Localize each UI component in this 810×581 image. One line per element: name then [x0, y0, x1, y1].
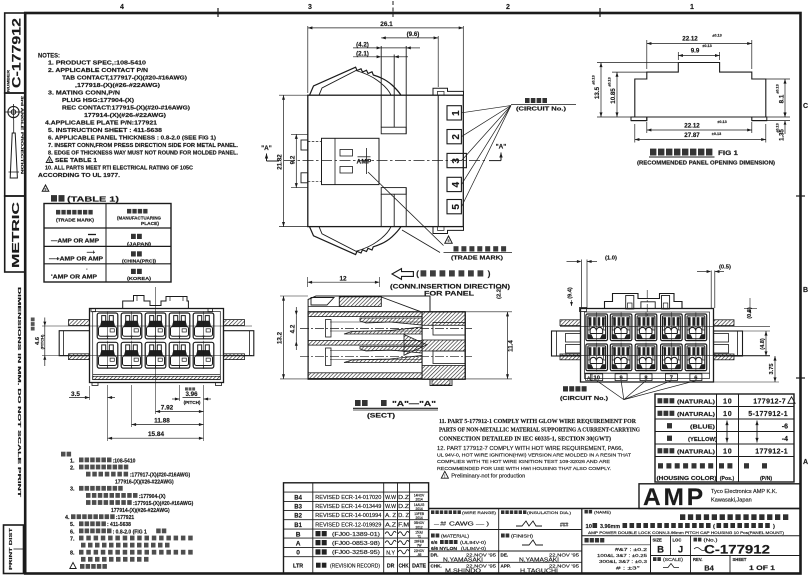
svg-text:10: 10 [586, 524, 592, 530]
panel fig dimension 22.12 bottom [646, 122, 648, 133]
svg-text:B: B [803, 287, 808, 294]
projection symbol target circle [8, 106, 19, 117]
svg-text:Tyco Electronics AMP K.K.: Tyco Electronics AMP K.K. [711, 489, 778, 495]
svg-text:2014: 2014 [416, 516, 423, 520]
svg-text:J: J [678, 545, 683, 556]
top view circuit number box 4 [447, 177, 461, 191]
parts table row 177912-1 [658, 448, 675, 453]
svg-text:6.: 6. [70, 529, 75, 535]
svg-text:REVISED ECR-14-013449: REVISED ECR-14-013449 [315, 504, 381, 510]
svg-text:(0.5): (0.5) [719, 265, 731, 271]
svg-text:(FJ00-3258-95): (FJ00-3258-95) [332, 550, 380, 556]
panel fig dimension 13.5 left [597, 62, 678, 64]
svg-text:B1: B1 [294, 523, 302, 529]
svg-text:B2: B2 [294, 514, 302, 520]
conn insertion direction arrow [392, 269, 413, 280]
svg-text:— ##: — ## [434, 522, 446, 528]
rear view center line vertical [646, 290, 648, 316]
dimension 13.2 section [280, 295, 308, 297]
svg-text:(Pos.): (Pos.) [720, 476, 735, 482]
svg-text:B4: B4 [294, 495, 302, 501]
svg-text:15.84: 15.84 [148, 431, 164, 438]
amp logo box [639, 484, 801, 509]
svg-text:DR: DR [387, 564, 395, 570]
front view left lock pins [69, 320, 90, 326]
svg-text:PRINT DIST: PRINT DIST [8, 527, 13, 570]
svg-text:3.96mm: 3.96mm [600, 524, 620, 530]
front view cavities row 1 [97, 313, 118, 339]
panel fig dimension 9.9 [677, 52, 679, 60]
insulation dia cell [501, 510, 526, 514]
rear view circuit leader lines [597, 381, 624, 400]
svg-text:13.2: 13.2 [277, 331, 284, 344]
svg-text:(JAPAN): (JAPAN) [127, 242, 151, 248]
svg-text:(2.1): (2.1) [356, 50, 369, 57]
svg-text:(CIRCUIT No.): (CIRCUIT No.) [516, 107, 566, 113]
svg-text:5: 5 [451, 204, 462, 210]
section view top wall hatched [308, 312, 422, 317]
svg-text:(1.0): (1.0) [605, 256, 617, 262]
svg-text:100&L 3&7 : ±0.25: 100&L 3&7 : ±0.25 [597, 553, 648, 558]
svg-text:PLACE): PLACE) [141, 221, 159, 226]
svg-text:177916-(X)(#26-#22AWG): 177916-(X)(#26-#22AWG) [115, 480, 174, 486]
svg-text:4.: 4. [65, 515, 70, 521]
rear view left ear [552, 331, 581, 356]
svg-text:—+: —+ [87, 250, 95, 256]
top view right bottom corner latch [433, 227, 464, 234]
svg-text:1.35: 1.35 [780, 129, 786, 141]
svg-text:12: 12 [339, 276, 347, 283]
parts table header pn [744, 463, 767, 468]
svg-text:RECOMMENDED FOR USE WITH HWI H: RECOMMENDED FOR USE WITH HWI HOUSING THA… [437, 466, 611, 472]
title block lower grid [582, 535, 801, 537]
top view center housing block [322, 138, 380, 184]
name cell japanese line 1 [680, 514, 788, 520]
svg-text:APP.: APP. [501, 564, 511, 569]
section view latch diagonal [381, 297, 421, 312]
rear view cavities row 1 [586, 314, 608, 341]
svg-text:(9.4): (9.4) [568, 287, 574, 299]
panel fig dimension 10.85 left [612, 71, 647, 73]
svg-text:7.92: 7.92 [161, 405, 174, 412]
svg-text:SEE TABLE 1: SEE TABLE 1 [55, 158, 97, 164]
svg-text:H.TAGUCHI: H.TAGUCHI [520, 569, 559, 575]
svg-text:(FJ00-1389-01): (FJ00-1389-01) [332, 532, 380, 538]
parts table grid [655, 394, 794, 482]
panel fig dimension 1.35 right [767, 120, 790, 122]
svg-text:0: 0 [296, 550, 300, 557]
dimension 3.75 rear right rotated [714, 381, 780, 383]
panel fig caption japanese [650, 149, 712, 156]
svg-text:10: 10 [723, 446, 733, 455]
svg-text:6/6 NYLON: 6/6 NYLON [431, 546, 458, 551]
rear view body outline [581, 309, 714, 383]
table 1 delta marker [42, 185, 49, 191]
svg-text:# : ±3°: # : ±3° [616, 566, 640, 571]
svg-text:Kawasaki,Japan: Kawasaki,Japan [711, 498, 752, 504]
svg-text:): ) [488, 269, 491, 279]
japanese note line 13 [81, 543, 170, 548]
svg-text:D. Z: D. Z [398, 513, 409, 519]
svg-text:±0.13: ±0.13 [592, 75, 596, 84]
revision table grid [284, 483, 429, 574]
svg-text:METRIC: METRIC [10, 201, 22, 268]
top view left tab upper [301, 140, 308, 150]
svg-text:27.87: 27.87 [684, 132, 700, 139]
panel fig dimension 22.12 top [646, 40, 648, 69]
rear view top bump [605, 294, 683, 309]
svg-text:(FJ00-0853-98): (FJ00-0853-98) [332, 541, 380, 547]
dimension 4.2 section [295, 315, 297, 341]
third angle projection box [5, 93, 26, 196]
svg-text:!: ! [444, 473, 445, 478]
svg-text:CAWG — ): CAWG — ) [449, 522, 490, 528]
front view right lock pins [224, 320, 245, 326]
svg-text:PLUG HSG:177904-(X): PLUG HSG:177904-(X) [62, 98, 134, 104]
svg-text:REC CONTACT:177915-(X)(#20-#16: REC CONTACT:177915-(X)(#20-#16AWG) [62, 106, 190, 112]
panel fig dimension 27.87 bottom [634, 124, 636, 143]
top view latch slot verticals [380, 46, 382, 127]
svg-text:DE.: DE. [501, 553, 509, 558]
section view terminal lines upper [330, 321, 422, 323]
trade mark leader line [368, 172, 444, 246]
dimension 11.4 section right [465, 311, 512, 313]
top view body outline [308, 95, 464, 226]
svg-text:177914-(X)(#26-#22AWG): 177914-(X)(#26-#22AWG) [84, 113, 166, 119]
svg-text:2012: 2012 [416, 525, 423, 529]
svg-text:(REVISION RECORD): (REVISION RECORD) [330, 564, 380, 570]
svg-text:5. INSTRUCTION SHEET : 411-563: 5. INSTRUCTION SHEET : 411-5638 [48, 128, 162, 134]
svg-text:ACCORDING TO UL 1977.: ACCORDING TO UL 1977. [38, 173, 120, 179]
svg-text:4: 4 [451, 181, 462, 187]
panel opening outline fig 1 [631, 63, 767, 121]
top view latch ledge upper [381, 127, 406, 134]
svg-text::177917-(X)(#20-#16AWG): :177917-(X)(#20-#16AWG) [130, 473, 191, 479]
japanese notes heading [61, 452, 71, 457]
svg-text:177912-7: 177912-7 [753, 398, 786, 405]
svg-text:-6: -6 [782, 423, 788, 430]
section view terminal lines lower [330, 350, 422, 352]
japanese note line 7 [86, 500, 132, 505]
svg-text:3.: 3. [70, 487, 75, 493]
svg-text:DATE: DATE [412, 564, 427, 570]
svg-text:N.YAMASAKI: N.YAMASAKI [443, 558, 484, 564]
top view mating face line [437, 95, 439, 226]
svg-text:(4.2): (4.2) [356, 42, 369, 49]
svg-text:-95: -95 [417, 553, 422, 557]
svg-text:22.12: 22.12 [684, 123, 700, 130]
section view center V wedge [404, 335, 427, 356]
rear view circuit number label [563, 386, 587, 391]
svg-text:1 OF 1: 1 OF 1 [749, 566, 776, 572]
rear view right ear [714, 331, 743, 356]
rear view circuit number 7 [665, 374, 677, 381]
svg-text:±0.13: ±0.13 [717, 120, 726, 124]
rear view circuit number 10 [591, 374, 603, 381]
svg-text:—AMP OR AMP: —AMP OR AMP [51, 239, 100, 245]
panel fig dimension 8.1 right [766, 78, 790, 80]
dimension 4.6 pitch left rotated [31, 318, 35, 331]
svg-text:"A": "A" [261, 145, 272, 152]
svg-text:(PITCH): (PITCH) [40, 334, 45, 349]
top view upper latch wing [310, 67, 402, 95]
svg-text:9: 9 [45, 188, 47, 192]
zone tick right lower [796, 377, 805, 379]
svg-text:2014: 2014 [416, 498, 423, 502]
svg-text:B3: B3 [294, 505, 302, 511]
svg-text:±0.13: ±0.13 [776, 84, 780, 93]
section view row center lines [300, 328, 472, 330]
svg-text:W.W: W.W [385, 495, 396, 501]
rear view circuit number 8 [640, 374, 652, 381]
svg-text:#&7 : ±0.2: #&7 : ±0.2 [615, 547, 648, 552]
zone center dashed divider top [392, 1, 394, 17]
table 1 header manufacturing place [127, 209, 148, 214]
dimension (4.8) rear right rotated [714, 330, 771, 332]
rear view cavities row 2 [586, 344, 608, 371]
svg-text:9.9: 9.9 [691, 48, 700, 55]
drawing number cell [694, 538, 702, 542]
top view circuit number box 2 [447, 130, 461, 144]
svg-text:(RECOMMENDED PANEL OPENING DIM: (RECOMMENDED PANEL OPENING DIMENSION) [637, 161, 775, 167]
svg-text:3rd ANGLE PROJECTION: 3rd ANGLE PROJECTION [20, 96, 24, 175]
svg-text:1: 1 [451, 110, 462, 116]
svg-text:(KOREA): (KOREA) [127, 276, 151, 282]
svg-text:11. PART 5-177912-1 COMPLY WIT: 11. PART 5-177912-1 COMPLY WITH GLOW WIR… [439, 419, 637, 425]
svg-text:M.SHINDO: M.SHINDO [445, 569, 482, 575]
trade mark label [454, 246, 507, 251]
svg-text:(HOUSING COLOR): (HOUSING COLOR) [657, 476, 717, 482]
svg-text:C-177912: C-177912 [704, 545, 770, 557]
svg-text:(UL94V-0): (UL94V-0) [461, 546, 487, 551]
svg-text:N.YAMASAKI: N.YAMASAKI [519, 558, 560, 564]
section view middle wall hatched [308, 341, 422, 346]
svg-text:C: C [803, 103, 808, 110]
svg-text:±0.13: ±0.13 [776, 123, 780, 132]
japanese note line 6 [86, 493, 138, 498]
front view row center line lower [42, 354, 252, 356]
svg-text::177921: :177921 [116, 515, 135, 521]
zone tick top left [217, 8, 219, 17]
svg-text:±0.13: ±0.13 [702, 44, 711, 48]
svg-text:DIMENSIONS IN MM. DO NOT SCALE: DIMENSIONS IN MM. DO NOT SCALE PRINT [17, 287, 22, 497]
table 1 header trade mark [56, 210, 93, 215]
parts table row yellow [667, 436, 672, 441]
front view bottom feet [92, 383, 98, 386]
svg-text:22.12: 22.12 [682, 36, 698, 43]
svg-text:26.1: 26.1 [380, 21, 393, 28]
trade mark delta marker [445, 236, 452, 243]
top view latch ledge lower [381, 188, 406, 195]
svg-text:7. INSERT CONN,FROM PRESS DIRE: 7. INSERT CONN,FROM PRESS DIRECTION SIDE… [48, 143, 238, 149]
svg-text:21.82: 21.82 [277, 154, 284, 170]
svg-text:A. Z: A. Z [385, 513, 396, 519]
svg-text:(NATURAL): (NATURAL) [677, 412, 715, 418]
top view circuit number box 3 [447, 153, 466, 167]
svg-text:A: A [296, 540, 301, 547]
japanese note line 3 [86, 472, 128, 477]
svg-text:177914-(X)(#26-#22AWG): 177914-(X)(#26-#22AWG) [111, 508, 170, 514]
section view upper terminal wedge [360, 318, 422, 325]
svg-text:±0.13: ±0.13 [712, 132, 721, 136]
section view latch hatched block [339, 297, 381, 307]
dimension 26.1 top [307, 26, 309, 93]
note 9 see table 1 with triangle [46, 157, 53, 163]
svg-text:A.Z: A.Z [385, 523, 396, 529]
svg-text:(CONN.INSERTION DIRECTION): (CONN.INSERTION DIRECTION) [390, 283, 510, 290]
rear view row center line upper [560, 325, 770, 327]
rear view number strip [585, 372, 710, 374]
svg-text:5-177912-1: 5-177912-1 [748, 411, 788, 418]
svg-text::177915-(X)(#20-#16AWG): :177915-(X)(#20-#16AWG) [133, 501, 194, 507]
preliminary note triangle [441, 471, 448, 478]
svg-text:(FINISH): (FINISH) [511, 534, 534, 539]
svg-text:±0.13: ±0.13 [608, 77, 612, 86]
svg-text:(INSULATION DIA.): (INSULATION DIA.) [527, 510, 572, 515]
dimension 21.82 left [279, 94, 308, 96]
svg-text:(MANUFACTUARING: (MANUFACTUARING [117, 216, 161, 221]
svg-text:(4.8): (4.8) [760, 338, 766, 350]
parts table row 5-177912-1 [658, 411, 675, 416]
name cell header [585, 510, 593, 514]
section view body outline [308, 312, 465, 379]
svg-text:10: 10 [723, 409, 733, 418]
rear view row center line lower [560, 354, 770, 356]
svg-text:2. APPLICABLE CONTACT P/N: 2. APPLICABLE CONTACT P/N [48, 68, 148, 74]
svg-text:REVISED ECR-12-019929: REVISED ECR-12-019929 [315, 523, 381, 529]
front view body outline [90, 309, 224, 383]
top view circuit number box 5 [447, 200, 461, 214]
circuit number leader lines top view [462, 106, 512, 113]
dimension pitch 3.96 front view [185, 387, 195, 390]
svg-text::177904-(X): :177904-(X) [139, 494, 166, 500]
svg-text:(: ( [416, 269, 419, 279]
tolerance cell [585, 538, 605, 543]
svg-text:8.1: 8.1 [779, 94, 786, 103]
svg-text:,177918-(X)(#26-#22AWG): ,177918-(X)(#26-#22AWG) [75, 83, 160, 89]
svg-text:13.5: 13.5 [594, 86, 601, 99]
svg-text:10. ALL PARTS MEET RTI ELECTRI: 10. ALL PARTS MEET RTI ELECTRICAL RATING… [45, 166, 194, 172]
table 1 title [51, 195, 65, 202]
print dist box [4, 525, 24, 574]
section view bottom wall hatched [308, 373, 422, 379]
front view left ear [59, 331, 89, 356]
svg-text:(YELLOW): (YELLOW) [688, 437, 717, 443]
svg-text:"A"—"A": "A"—"A" [392, 401, 436, 408]
circuit number label top view [511, 104, 576, 106]
zone tick right upper [796, 195, 805, 197]
front view vertical center line [155, 287, 157, 390]
rear view right pin stubs [714, 334, 729, 343]
zone tick top right [599, 8, 601, 17]
svg-text:7.: 7. [70, 536, 75, 542]
svg-text:B: B [657, 545, 664, 556]
svg-text:(MATERIAL): (MATERIAL) [441, 534, 470, 539]
japanese note triangle table1 [70, 563, 76, 569]
svg-text:AMP POWER DOUBLE LOCK CONN.3.9: AMP POWER DOUBLE LOCK CONN.3.96mm PITCH … [588, 531, 784, 535]
svg-text:Preliminary-not for production: Preliminary-not for production [451, 473, 525, 479]
svg-text:(9.6): (9.6) [407, 31, 420, 38]
rear view circuit number 9 [615, 374, 627, 381]
svg-text:6/6: 6/6 [431, 540, 438, 545]
svg-text:UL 94V-0, HOT WIRE IGNITION(HW: UL 94V-0, HOT WIRE IGNITION(HWI) VERSION… [437, 453, 631, 459]
svg-text:12. PART 177912-7 COMPLY WITH: 12. PART 177912-7 COMPLY WITH HOT WIRE R… [437, 446, 623, 452]
parts table pos arrows [726, 421, 728, 443]
svg-text:: 411-5638: : 411-5638 [107, 522, 131, 528]
svg-text:3.5: 3.5 [71, 391, 80, 398]
svg-text:2: 2 [506, 4, 510, 11]
front view top latch bump [123, 296, 189, 309]
projection symbol cone [10, 133, 17, 178]
svg-text:AMP: AMP [643, 484, 706, 511]
svg-text:(WIRE RANGE): (WIRE RANGE) [462, 510, 497, 515]
svg-text:N.Y: N.Y [386, 551, 395, 557]
svg-text:): ) [773, 524, 775, 530]
svg-text::108-5410: :108-5410 [113, 458, 136, 464]
front view column center lines extended [107, 385, 109, 441]
svg-text:(SCALE): (SCALE) [663, 557, 684, 562]
section view bottom foot [430, 379, 452, 386]
svg-text:B4: B4 [704, 564, 714, 573]
svg-text:D.Z: D.Z [398, 495, 409, 501]
dimension 9.2 left [291, 133, 308, 135]
front view bottom wall strip [93, 374, 221, 376]
svg-text:9.2: 9.2 [289, 155, 296, 164]
section view right mating block [422, 312, 465, 379]
svg-text:AMP: AMP [356, 159, 372, 166]
metric box [5, 196, 26, 272]
svg-text:C-177912: C-177912 [12, 18, 24, 88]
svg-text:: 0.8-2.0 (FIG 1: : 0.8-2.0 (FIG 1 [113, 529, 147, 535]
svg-text:(CIRCUIT No.): (CIRCUIT No.) [560, 396, 608, 402]
section view latch lever top [308, 296, 430, 312]
svg-text:9: 9 [49, 159, 51, 163]
svg-text:?1: ?1 [417, 535, 421, 539]
svg-text:4: 4 [120, 4, 124, 11]
svg-text:A: A [803, 459, 808, 466]
parts table row blue [667, 423, 672, 428]
scale cell [653, 557, 661, 561]
svg-text:(TABLE 1): (TABLE 1) [67, 195, 120, 204]
svg-text:W.W: W.W [385, 504, 396, 510]
svg-text:2: 2 [451, 134, 462, 140]
table 1 grid [44, 204, 171, 283]
svg-text:D.Z: D.Z [398, 504, 409, 510]
svg-text:?W: ?W [417, 544, 422, 548]
svg-text:11.4: 11.4 [508, 340, 515, 352]
dimension (4.2) [381, 47, 406, 49]
svg-text:2.: 2. [70, 465, 75, 471]
svg-text:(CHINA(PRC)): (CHINA(PRC)) [122, 259, 156, 265]
svg-text:·: · [86, 267, 88, 273]
svg-text:FIG 1: FIG 1 [718, 150, 739, 157]
svg-text:8. EDGE OF THICKNESS WAY MUST: 8. EDGE OF THICKNESS WAY MUST NOT ROUND … [48, 151, 238, 157]
top view right top corner latch [433, 88, 464, 95]
svg-text:8.: 8. [70, 551, 75, 557]
svg-text:COMPLIES WITH TE HOT WIRE IGNI: COMPLIES WITH TE HOT WIRE IGNITION TEST … [437, 459, 610, 465]
svg-text:(NATURAL): (NATURAL) [677, 449, 715, 455]
svg-text:"A": "A" [496, 144, 507, 151]
front view cavities row 2 [97, 342, 118, 368]
svg-text:6. APPLICABLE PANEL THICKNESS: 6. APPLICABLE PANEL THICKNESS : 0.8-2.0 … [48, 136, 216, 142]
svg-text:CONNECTION DETAILED IN IEC 603: CONNECTION DETAILED IN IEC 60335-1, SECT… [439, 436, 611, 443]
rear view circuit number 6 [690, 374, 702, 381]
svg-text:5.: 5. [70, 522, 75, 528]
svg-text:1.: 1. [70, 458, 75, 464]
svg-text:3.75: 3.75 [769, 364, 775, 375]
section label A-A [355, 400, 368, 406]
japanese note line 15 [81, 557, 149, 562]
